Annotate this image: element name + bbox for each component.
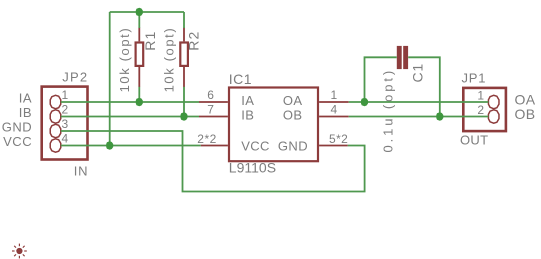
wire R1 top [138,12,140,28]
svg-text:2: 2 [477,103,484,117]
wire R1 bottom to IA [138,87,140,102]
svg-text:10k (opt): 10k (opt) [162,27,177,93]
JP1 pin 1 circle [488,95,499,108]
junction dot R1/IA [136,98,143,107]
svg-text:C1: C1 [410,63,426,83]
wire net OB row [349,116,489,118]
junction dot R2/IB [181,112,188,121]
IC1 pin OB stub [319,116,349,118]
junction dot VCC top [136,8,143,17]
junction dot VCC row [106,141,113,150]
wire R2 top [183,12,185,28]
JP1 pin 2 circle [488,110,499,123]
resistor R1 [136,28,144,88]
svg-text:OB: OB [283,108,303,123]
IC1 pin GND stub [319,145,348,147]
svg-text:L9110S: L9110S [229,160,276,176]
svg-text:VCC: VCC [241,138,270,153]
wire C1 right leg [408,57,440,116]
wire R2 bottom to IB [183,87,185,117]
JP2 pin 3 circle [50,124,61,137]
svg-text:VCC: VCC [3,134,32,149]
resistor R2 [180,28,188,88]
svg-text:GND: GND [2,119,32,134]
svg-text:OB: OB [515,106,536,122]
svg-text:4: 4 [62,131,69,145]
svg-text:2: 2 [62,102,69,116]
svg-text:IB: IB [19,105,32,120]
wire net OA row [349,101,489,103]
junction dot OA [361,98,368,107]
svg-text:IA: IA [19,90,32,105]
svg-text:JP2: JP2 [62,70,88,85]
junction dot OB [436,112,443,121]
svg-text:IN: IN [74,163,89,178]
svg-text:1: 1 [477,88,484,102]
IC1 pin IA stub [199,101,228,103]
svg-text:OUT: OUT [460,133,488,148]
IC1 box [229,88,318,162]
JP2 pin 1 circle [50,95,61,108]
svg-text:IB: IB [241,108,254,123]
wire VCC top horizontal [110,11,184,13]
svg-text:IA: IA [241,93,254,108]
JP2 pin 2 circle [50,110,61,123]
svg-text:7: 7 [207,103,214,117]
svg-text:2*2: 2*2 [197,132,217,146]
svg-text:OA: OA [283,93,303,108]
svg-text:IC1: IC1 [229,71,252,87]
wire net IB row [61,116,199,118]
wire C1 left leg [365,57,397,102]
wire net IA row [61,101,199,103]
wire VCC left vertical [109,12,111,146]
svg-text:1: 1 [331,88,338,102]
capacitor C1 [397,46,408,69]
IC1 pin IB stub [199,116,228,118]
svg-text:3: 3 [62,117,69,131]
svg-text:JP1: JP1 [462,71,487,86]
connector JP2 box [42,87,88,160]
wire net VCC row [61,145,201,147]
svg-text:4: 4 [331,103,338,117]
IC1 pin VCC stub [201,145,228,147]
JP2 pin 4 circle [50,139,61,152]
svg-text:R1: R1 [142,31,158,51]
svg-text:10k (opt): 10k (opt) [117,27,132,93]
IC1 pin OA stub [319,101,349,103]
svg-text:GND: GND [278,138,308,153]
wire net GND from JP2 pin3 [61,131,365,192]
svg-text:1: 1 [62,88,69,102]
svg-text:5*2: 5*2 [329,132,348,146]
connector JP1 box [463,88,506,131]
svg-text:0.1u (opt): 0.1u (opt) [380,68,395,153]
svg-text:R2: R2 [186,31,202,51]
origin sun mark [12,244,27,259]
svg-text:6: 6 [207,88,214,102]
